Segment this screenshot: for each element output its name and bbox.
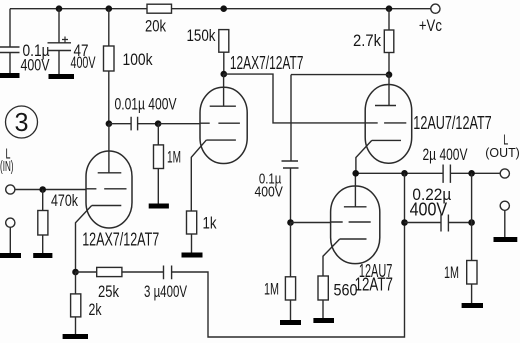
svg-text:+Vc: +Vc [419, 16, 442, 35]
ground 1k [182, 253, 203, 258]
wire cathode to 25k [76, 271, 97, 273]
svg-text:25k: 25k [98, 282, 119, 301]
ground input [0, 253, 21, 258]
node top rail / 150k [220, 5, 227, 12]
tube V2 12AU7 upper [356, 75, 412, 171]
capacitor 0.01u 400V [109, 95, 177, 131]
wire top rail left segment [10, 8, 147, 10]
capacitor 0.22u 400V [405, 185, 472, 232]
resistor 25k [97, 267, 122, 301]
svg-text:150k: 150k [187, 26, 216, 45]
resistor 150k [187, 26, 229, 52]
svg-text:400V: 400V [21, 56, 50, 75]
label 12AT7 V3 [355, 275, 393, 295]
ground 560 [313, 318, 334, 323]
wire 471 vertical [471, 173, 473, 260]
ground C2 [49, 74, 75, 79]
resistor 2k [71, 272, 102, 335]
svg-text:2k: 2k [89, 300, 102, 319]
node 2u left [401, 170, 408, 177]
wire 404 vertical [404, 173, 406, 222]
svg-text:(IN): (IN) [0, 159, 14, 175]
svg-text:(OUT): (OUT) [485, 145, 520, 160]
svg-text:400V: 400V [71, 53, 96, 72]
wire C4 top tap [291, 75, 389, 161]
wire feedback loop [172, 223, 405, 337]
node V2 plate / C4 [386, 71, 393, 78]
terminal input ground [6, 218, 15, 253]
node V0 cathode [72, 269, 79, 276]
wire output row [356, 172, 501, 174]
wire 100k bottom to node A [108, 71, 110, 124]
svg-text:0.01µ 400V: 0.01µ 400V [115, 95, 177, 114]
node 0.01u right [155, 120, 162, 127]
node 2u right [468, 170, 475, 177]
terminal output [485, 132, 520, 178]
resistor 20k [145, 4, 172, 35]
wire 100k top lead [108, 9, 110, 46]
svg-text:12AU7/12AT7: 12AU7/12AT7 [413, 113, 491, 133]
resistor 1M grid leak V3 [264, 223, 296, 321]
svg-text:2.7k: 2.7k [353, 31, 381, 50]
tube V3 12AU7 lower [323, 174, 380, 277]
svg-text:1M: 1M [264, 280, 279, 299]
wire V1 plate to V2 grid [224, 74, 365, 123]
label L (IN) [0, 147, 14, 176]
wire left drop to C1 [9, 9, 11, 47]
node V1 plate [221, 71, 228, 78]
resistor 100k [104, 46, 153, 71]
svg-text:20k: 20k [145, 17, 166, 36]
node top rail / 100k [106, 5, 113, 12]
ground 1M V1 [149, 204, 169, 209]
wire top rail right segment [172, 8, 390, 10]
svg-text:100k: 100k [123, 50, 153, 69]
svg-text:3: 3 [15, 107, 29, 137]
wire to +Vc terminal [389, 8, 432, 10]
svg-text:2µ 400V: 2µ 400V [423, 145, 468, 164]
label 12AX7/12AT7 V0 [82, 230, 159, 250]
wire 150k bottom lead [223, 52, 225, 74]
svg-text:400V: 400V [255, 183, 283, 200]
ground 1M output [462, 303, 483, 308]
ground 470k [33, 253, 52, 258]
node 470k [39, 186, 46, 193]
svg-text:12AX7/12AT7: 12AX7/12AT7 [230, 53, 304, 73]
node V3 grid [287, 219, 294, 226]
capacitor C2 47 400V electrolytic [48, 37, 96, 75]
node top rail / 47u [56, 5, 63, 12]
tube V1 12AX7 second stage [191, 74, 247, 211]
wire grid V3 [291, 222, 331, 224]
wire 25k to C5 [122, 271, 164, 273]
ground C1 [0, 73, 20, 78]
tube V0 12AX7 first stage [76, 124, 133, 269]
ground output terminal [494, 237, 518, 242]
svg-text:1k: 1k [203, 214, 217, 233]
wire input to V0 grid [15, 189, 86, 191]
svg-text:3 µ400V: 3 µ400V [144, 282, 187, 301]
label 12AX7/12AT7 V1 [230, 53, 304, 73]
resistor 1M output [444, 261, 477, 304]
terminal input [6, 185, 15, 194]
resistor 1M grid leak V1 [154, 124, 182, 204]
capacitor C1 0.1u 400V [0, 41, 50, 75]
wire 47u top lead [58, 9, 60, 43]
resistor 1k cathode V1 [187, 211, 217, 253]
svg-text:1M: 1M [444, 263, 459, 282]
capacitor C4 0.1u 400V interstage [255, 161, 299, 223]
node 0.22u left [401, 219, 408, 226]
node V3 plate [352, 170, 359, 177]
wire 2.7k bottom lead [388, 53, 390, 75]
svg-text:400V: 400V [410, 200, 448, 220]
node 0.22u right [468, 219, 475, 226]
resistor 560 cathode V3 [318, 276, 358, 318]
capacitor 2u 400V [423, 145, 468, 183]
resistor 470k [38, 190, 79, 254]
svg-text:12AX7/12AT7: 12AX7/12AT7 [82, 230, 159, 250]
svg-text:470k: 470k [51, 191, 78, 210]
node 0.01u left [106, 120, 113, 127]
svg-text:12AT7: 12AT7 [355, 275, 393, 295]
wire grid V1 [158, 123, 200, 125]
capacitor 3u 400V [144, 266, 187, 302]
ground 1M V3 [280, 320, 301, 325]
node top rail / 2.7k [386, 5, 393, 12]
svg-text:1M: 1M [167, 148, 181, 167]
label 12AU7/12AT7 V2 [413, 113, 491, 133]
label 12AU7 V3 [359, 261, 392, 281]
marker circled 3 [6, 106, 38, 138]
terminal +Vc [419, 4, 442, 35]
resistor 2.7k [353, 9, 394, 53]
ground 2k [63, 334, 88, 339]
svg-text:560: 560 [334, 281, 358, 300]
terminal output ground [500, 201, 509, 237]
